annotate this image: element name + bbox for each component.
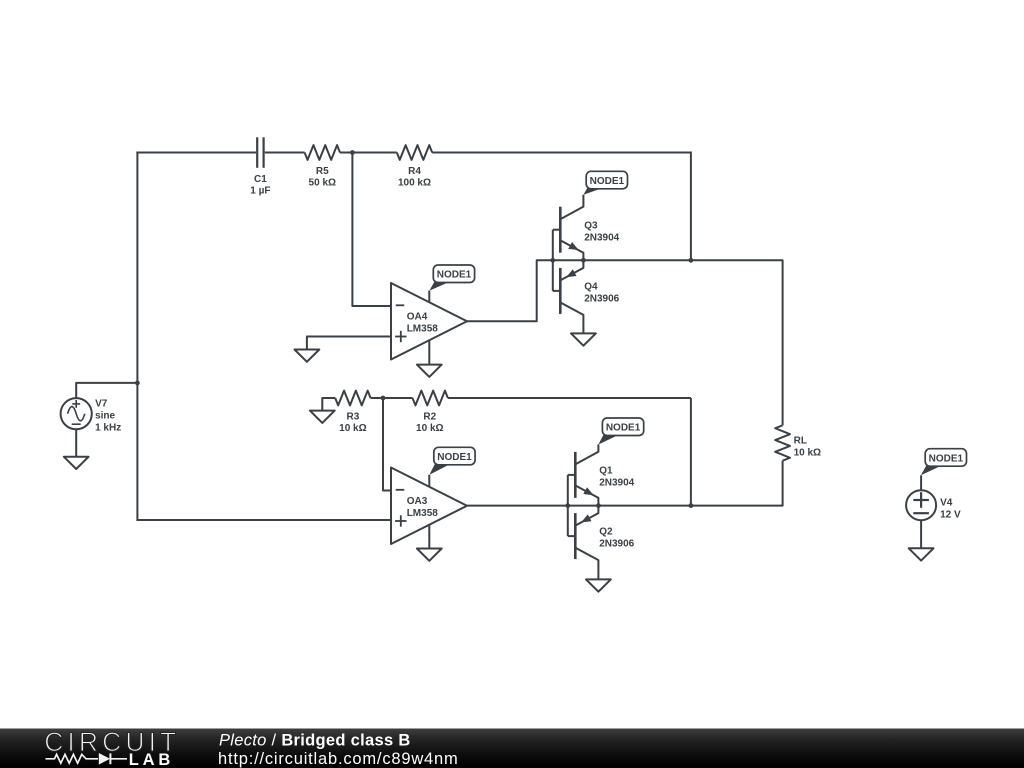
wire left rail upper [136, 152, 138, 383]
svg-text:2N3904: 2N3904 [599, 478, 634, 489]
node NODE1 callout at Q1 collector [598, 435, 619, 445]
svg-text:1 kHz: 1 kHz [95, 422, 121, 433]
wire C1 to R5 [265, 152, 305, 154]
svg-text:10 kΩ: 10 kΩ [416, 423, 443, 434]
svg-text:2N3906: 2N3906 [599, 539, 634, 550]
CircuitLab logo resistor-diode glyph [46, 754, 99, 763]
ground under V4 [909, 548, 934, 560]
voltage source V7 [61, 398, 92, 429]
wire output to RL top [691, 260, 783, 425]
op-amp OA3 V+ pin [428, 475, 430, 487]
op-amp OA3 V- pin [428, 525, 430, 549]
wire V7 bottom lead [75, 429, 77, 456]
svg-text:NODE1: NODE1 [437, 270, 472, 281]
op-amp OA4 V- pin [428, 340, 430, 364]
resistor R3 [335, 391, 370, 406]
wire junction to R4 [352, 152, 396, 154]
node junction Q1/Q2 emitters [596, 503, 601, 508]
svg-text:Q3: Q3 [584, 220, 598, 231]
resistor R5 [305, 145, 340, 160]
wire R3 ground jog [322, 398, 335, 411]
wire top-right vertical [690, 152, 692, 261]
svg-text:R2: R2 [423, 411, 436, 422]
wire Q1/Q2 output rail [568, 505, 691, 507]
svg-text:Q1: Q1 [599, 466, 613, 477]
resistor RL [775, 425, 790, 460]
node junction R5/R4 [350, 150, 355, 155]
svg-text:NODE1: NODE1 [590, 176, 625, 187]
wire feedback vertical [690, 398, 692, 506]
svg-text:1 µF: 1 µF [250, 186, 270, 197]
wire bottom rail to OA3 noninverting input [137, 519, 392, 521]
svg-text:Plecto / Bridged class B: Plecto / Bridged class B [219, 732, 411, 750]
op-amp OA4 [391, 283, 467, 360]
voltage source V4 [906, 490, 936, 520]
resistor R2 [413, 391, 448, 406]
svg-text:50 kΩ: 50 kΩ [309, 178, 336, 189]
svg-text:http://circuitlab.com/c89w4nm: http://circuitlab.com/c89w4nm [218, 750, 459, 768]
transistor Q2 2N3906 [574, 513, 577, 559]
node junction output to RL top [689, 258, 694, 263]
svg-text:NODE1: NODE1 [929, 453, 964, 464]
svg-text:10 kΩ: 10 kΩ [794, 447, 821, 458]
resistor R4 [397, 145, 432, 160]
svg-text:RL: RL [794, 436, 807, 447]
svg-text:R4: R4 [408, 166, 421, 177]
wire R4 to top-right corner [432, 152, 691, 154]
svg-text:V4: V4 [940, 498, 953, 509]
node junction Q3/Q4 emitters [581, 258, 586, 263]
svg-text:sine: sine [95, 410, 115, 421]
wire OA4 output to Q3/Q4 base [467, 260, 553, 321]
svg-text:2N3904: 2N3904 [584, 232, 619, 243]
capacitor C1 [256, 137, 258, 168]
svg-text:Q2: Q2 [599, 527, 613, 538]
svg-text:100 kΩ: 100 kΩ [398, 178, 431, 189]
wire top-left segment [136, 152, 256, 154]
wire junction to OA3 inverting input [383, 398, 392, 491]
svg-text:LM358: LM358 [407, 508, 439, 519]
wire V4 top lead [920, 475, 922, 490]
transistor Q3 2N3904 [559, 207, 562, 253]
svg-text:V7: V7 [95, 398, 108, 409]
transistor Q1 2N3904 [574, 452, 577, 498]
ground under V7 [64, 457, 89, 469]
wire Q1/Q2 base bus [567, 475, 569, 536]
svg-text:R5: R5 [316, 166, 329, 177]
svg-text:12 V: 12 V [940, 510, 961, 521]
wire R2 to feedback corner [448, 397, 691, 399]
wire Q3/Q4 base bus [552, 230, 554, 291]
op-amp OA4 V+ pin [428, 291, 430, 303]
wire junction to R2 [383, 397, 413, 399]
wire R3 to junction [371, 397, 383, 399]
svg-text:10 kΩ: 10 kΩ [339, 423, 366, 434]
wire junction to OA4 inverting input [352, 153, 392, 307]
node junction output to RL bottom [689, 503, 694, 508]
node NODE1 callout at OA4 V+ [429, 282, 450, 291]
svg-text:NODE1: NODE1 [437, 452, 472, 463]
svg-text:LAB: LAB [129, 751, 174, 768]
wire V4 bottom lead [920, 520, 922, 548]
node NODE1 callout at Q3 collector [583, 188, 603, 195]
wire RL bottom to output junction [691, 461, 783, 506]
wire ground to OA4 noninverting input [307, 337, 392, 350]
wire left rail lower [136, 383, 138, 521]
wire R5 to junction [340, 152, 352, 154]
wire Q3/Q4 output rail [553, 259, 691, 261]
ground under Q2 collector [586, 579, 611, 591]
node NODE1 callout at OA3 V+ [429, 464, 450, 475]
node junction R3/R2 [381, 396, 386, 401]
svg-text:2N3906: 2N3906 [584, 294, 619, 305]
svg-text:C1: C1 [254, 174, 267, 185]
ground at R3 left [310, 411, 335, 423]
wire OA3 output to Q1/Q2 base [467, 505, 568, 507]
ground under OA4 V- pin [417, 365, 442, 377]
svg-text:OA3: OA3 [407, 496, 428, 507]
svg-text:R3: R3 [347, 411, 360, 422]
wire V7 top lead [76, 383, 137, 398]
node junction Q3/Q4 base bus [550, 258, 555, 263]
ground under OA3 V- pin [417, 549, 442, 561]
ground at OA4 noninverting input [295, 350, 320, 362]
svg-text:LM358: LM358 [407, 324, 439, 335]
svg-text:NODE1: NODE1 [606, 423, 641, 434]
ground under Q4 collector [571, 333, 596, 345]
node NODE1 callout at V4 positive terminal [921, 465, 942, 475]
svg-text:Q4: Q4 [584, 282, 598, 293]
svg-text:OA4: OA4 [407, 311, 428, 322]
op-amp OA3 [391, 468, 467, 545]
node junction V7 tap [135, 381, 140, 386]
transistor Q4 2N3906 [559, 268, 562, 314]
node junction Q1/Q2 base bus [565, 503, 570, 508]
